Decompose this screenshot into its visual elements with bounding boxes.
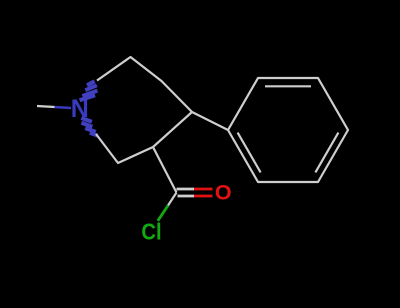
benzene ring C6H5 [228, 78, 348, 182]
wire hashed wedge N-C1 [80, 81, 98, 100]
wire N-CH3 methyl bond [37, 106, 55, 107]
wire C-Cl bond (gray half) [168, 193, 177, 206]
svg-text:Cl: Cl [141, 219, 161, 245]
wire C-Cl bond (green half) [158, 206, 168, 221]
wire bond C3 to phenyl [192, 112, 228, 130]
wire C=O double bond (red half) [194, 188, 213, 191]
wire tropane ring outline [96, 57, 192, 163]
wire C=O double bond (gray half) [177, 188, 195, 191]
wire bond C2 to carbonyl C [153, 147, 177, 193]
wire benzene inner double bond lower-right [315, 133, 338, 173]
wire benzene inner double bond top [265, 85, 311, 87]
wire hashed wedge N-C5 [81, 118, 97, 136]
svg-text:O: O [215, 181, 232, 205]
wire benzene inner double bond lower-left [238, 133, 261, 173]
